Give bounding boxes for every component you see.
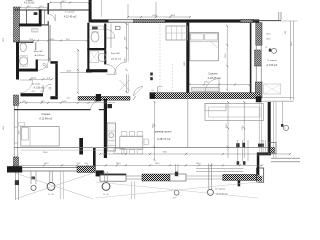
svg-text:75: 75 — [261, 140, 263, 142]
svg-text:A 12.50 m2: A 12.50 m2 — [217, 192, 229, 195]
svg-text:A 3.68 m2: A 3.68 m2 — [35, 54, 46, 57]
svg-text:442.0: 442.0 — [67, 71, 72, 73]
svg-text:380.1: 380.1 — [125, 58, 127, 63]
svg-text:A 4.53 m2: A 4.53 m2 — [266, 64, 277, 67]
svg-text:746.2: 746.2 — [163, 152, 168, 154]
svg-text:09: 09 — [106, 194, 108, 196]
svg-text:A 4.51 m2: A 4.51 m2 — [111, 58, 122, 61]
svg-text:дневна+кухня: дневна+кухня — [155, 130, 172, 133]
svg-text:Баня+WC: Баня+WC — [111, 53, 121, 55]
svg-text:70: 70 — [265, 47, 267, 49]
svg-text:98.2: 98.2 — [62, 1, 66, 3]
svg-text:29.1: 29.1 — [285, 31, 287, 34]
svg-text:590.0: 590.0 — [3, 126, 5, 130]
svg-text:А: антре: А: антре — [32, 83, 41, 86]
svg-text:99.8: 99.8 — [18, 131, 20, 134]
svg-text:40.2: 40.2 — [32, 91, 36, 93]
svg-text:240.0: 240.0 — [116, 163, 121, 165]
svg-text:A 12.40 m2: A 12.40 m2 — [64, 15, 77, 18]
svg-text:135.0: 135.0 — [266, 33, 271, 35]
svg-text:Спалня: Спалня — [208, 72, 218, 76]
svg-text:150: 150 — [50, 58, 52, 61]
svg-text:A 11.89 m2: A 11.89 m2 — [39, 117, 52, 121]
svg-text:92.0: 92.0 — [40, 6, 44, 8]
svg-text:A 3.29 m2: A 3.29 m2 — [24, 1, 35, 4]
svg-text:30.0: 30.0 — [67, 98, 71, 100]
svg-text:129.0: 129.0 — [266, 38, 271, 40]
svg-text:15.0: 15.0 — [151, 90, 154, 92]
svg-text:A 1.93 m2: A 1.93 m2 — [34, 87, 45, 90]
svg-text:287.0: 287.0 — [3, 38, 5, 42]
svg-text:29.0: 29.0 — [125, 37, 127, 40]
svg-text:326.0: 326.0 — [43, 152, 48, 154]
svg-text:90.0: 90.0 — [151, 93, 154, 95]
svg-text:160.0: 160.0 — [155, 163, 160, 165]
svg-text:150.0: 150.0 — [50, 39, 55, 41]
svg-text:A 28.74 m2: A 28.74 m2 — [157, 137, 171, 141]
svg-text:9: тераса: 9: тераса — [267, 60, 277, 62]
svg-text:Баня+WC: Баня+WC — [34, 51, 44, 53]
svg-text:235.0: 235.0 — [225, 54, 227, 59]
svg-text:348.0: 348.0 — [184, 62, 186, 67]
svg-text:09: 09 — [51, 194, 53, 196]
svg-text:92.0: 92.0 — [66, 39, 70, 41]
svg-text:Спалня: Спалня — [41, 112, 51, 116]
svg-text:102.0: 102.0 — [62, 101, 67, 103]
svg-text:98.0: 98.0 — [30, 39, 34, 41]
svg-text:98.0: 98.0 — [23, 101, 27, 103]
svg-text:10: тераса: 10: тераса — [215, 189, 226, 191]
svg-text:2: спалня: 2: спалня — [65, 12, 75, 14]
svg-text:236.1: 236.1 — [291, 42, 293, 47]
svg-text:473.0: 473.0 — [204, 81, 209, 83]
svg-text:90.0: 90.0 — [40, 91, 44, 93]
